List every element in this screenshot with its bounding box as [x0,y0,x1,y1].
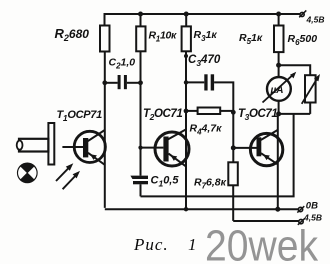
svg-text:1: 1 [188,235,197,254]
svg-text:C10,5: C10,5 [151,175,180,189]
svg-text:R51к: R51к [239,32,263,46]
svg-text:Рис.: Рис. [133,235,169,254]
svg-text:4,5В: 4,5В [306,15,325,25]
svg-text:R6500: R6500 [288,33,318,47]
svg-text:C3470: C3470 [188,54,221,68]
svg-text:R31к: R31к [194,29,218,43]
svg-text:R110к: R110к [149,30,178,44]
svg-text:Т3ОС71: Т3ОС71 [238,108,277,122]
svg-text:R76,8к: R76,8к [194,177,227,191]
svg-text:Т2ОС71: Т2ОС71 [143,108,182,122]
svg-text:R2680: R2680 [55,26,90,43]
svg-text:0В: 0В [306,201,318,212]
svg-text:C21,0: C21,0 [109,57,136,71]
svg-text:R44,7к: R44,7к [190,123,223,137]
svg-text:µА: µА [270,85,284,96]
svg-text:20wek: 20wek [205,222,319,264]
